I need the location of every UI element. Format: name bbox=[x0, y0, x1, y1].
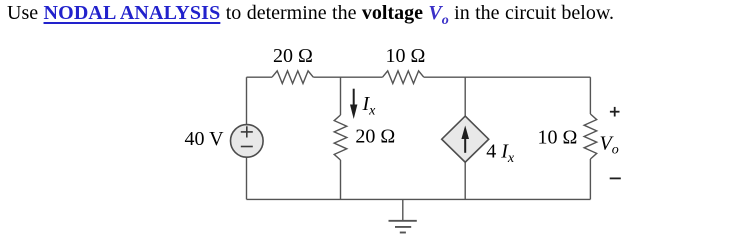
svg-text:20 Ω: 20 Ω bbox=[273, 45, 313, 67]
svg-text:10 Ω: 10 Ω bbox=[538, 127, 578, 149]
svg-text:10 Ω: 10 Ω bbox=[386, 45, 426, 67]
svg-text:20 Ω: 20 Ω bbox=[355, 126, 395, 148]
svg-text:40 V: 40 V bbox=[185, 128, 225, 150]
svg-text:Vo: Vo bbox=[600, 133, 619, 158]
svg-text:Ix: Ix bbox=[362, 93, 377, 119]
svg-text:4 Ix: 4 Ix bbox=[486, 140, 515, 166]
